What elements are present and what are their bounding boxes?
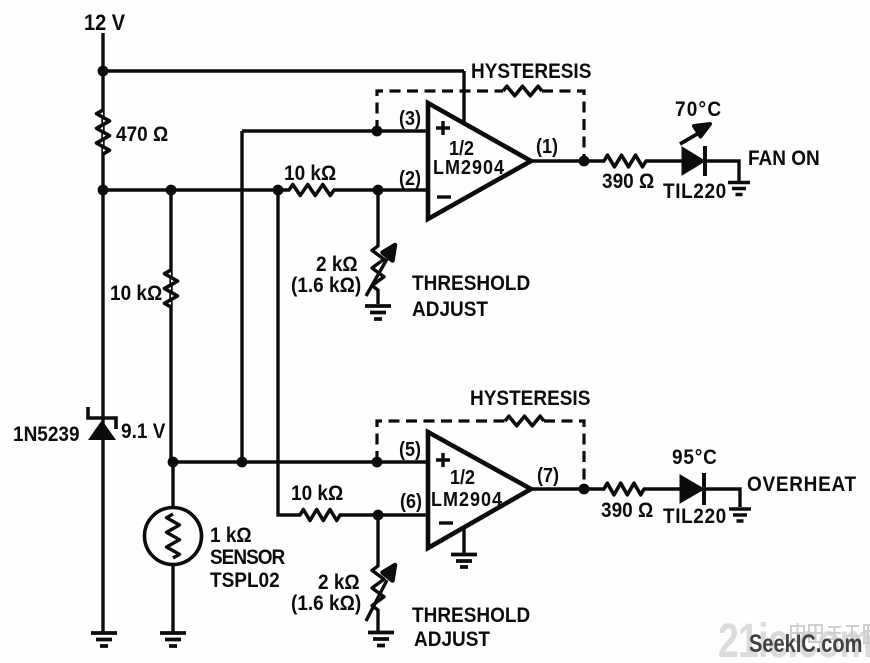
junction dot output2 bbox=[579, 484, 590, 495]
ground left rail bbox=[91, 633, 117, 646]
label 12 V supply bbox=[84, 12, 125, 35]
label FAN ON bbox=[748, 148, 820, 169]
label THRESHOLD 1 bbox=[412, 273, 530, 294]
junction dot bottom10k branch bbox=[273, 185, 284, 196]
wire pot2 from pin6 node bbox=[376, 515, 379, 567]
wire LED1 cathode to ground corner bbox=[705, 161, 739, 181]
potentiometer 2k threshold adjust 1 bbox=[366, 245, 395, 296]
ground pot1 bbox=[365, 306, 391, 319]
wire output pin1 bbox=[531, 159, 605, 162]
label pin 2 bbox=[399, 168, 421, 188]
wire sensor bottom to ground bbox=[171, 462, 174, 633]
potentiometer 2k threshold adjust 2 bbox=[366, 565, 395, 621]
op-amp U1 1/2 LM2904 triangle bbox=[428, 103, 531, 219]
wire divider branch vertical 10k bbox=[169, 190, 172, 462]
wire pot1 from pin2 node bbox=[376, 190, 379, 247]
junction dot pin5 rail left bbox=[168, 457, 179, 468]
label OVERHEAT bbox=[747, 474, 857, 495]
label 70 C bbox=[675, 99, 722, 120]
junction dot pot1 top bbox=[373, 185, 384, 196]
label TIL220 top bbox=[663, 181, 727, 202]
wire non-inverting input pin3 bbox=[242, 129, 428, 132]
label THRESHOLD 2 bbox=[412, 605, 530, 626]
resistor hysteresis 1 bbox=[503, 86, 542, 96]
wire branch to bottom 10k vertical bbox=[278, 190, 301, 515]
resistor hysteresis 2 bbox=[505, 416, 544, 426]
label 2 kohm pot2 bbox=[318, 572, 360, 593]
label 10 kohm divider bbox=[110, 283, 162, 304]
junction dot pin5 hysteresis bbox=[372, 457, 383, 468]
label 2 kohm pot1 bbox=[316, 254, 358, 275]
op-amp U2 minus sign bbox=[439, 521, 453, 524]
label sensor 1 kohm bbox=[210, 525, 252, 546]
wire mid rail right of resistor bbox=[333, 188, 428, 191]
wire op-amp U2 ground stub bbox=[462, 528, 465, 553]
label zener 9.1 V bbox=[121, 421, 165, 442]
wire long connector from pin3 node down to pin5 rail bbox=[240, 131, 243, 462]
label resistor 470 ohm value bbox=[116, 124, 168, 145]
dashed hysteresis box 2 bbox=[377, 421, 584, 489]
wire to LED2 anode bbox=[643, 487, 681, 490]
wire output pin7 bbox=[531, 487, 605, 490]
ground sensor bbox=[160, 633, 186, 646]
dashed hysteresis box 1 bbox=[377, 91, 584, 161]
wire to LED1 anode bbox=[645, 159, 683, 162]
resistor 390 ohm top bbox=[604, 155, 646, 167]
label 1.6 kohm pot1 bbox=[291, 275, 361, 296]
label 95 C bbox=[672, 447, 718, 468]
label 10 kohm bottom bbox=[291, 483, 343, 504]
op-amp U1 minus sign bbox=[437, 195, 451, 198]
junction dot mid rail left bbox=[98, 185, 109, 196]
resistor 10k bottom horizontal bbox=[300, 510, 340, 521]
junction dot pin6 pot2 bbox=[373, 510, 384, 521]
label ADJUST 1 bbox=[412, 299, 488, 320]
watermark chinese characters gray bbox=[790, 622, 870, 648]
LED D1 cathode bar bbox=[703, 146, 707, 176]
label op-amp U1 1/2 bbox=[449, 138, 474, 158]
op-amp U2 1/2 LM2904 triangle bbox=[428, 432, 531, 548]
resistor 390 ohm bottom bbox=[604, 483, 644, 495]
zener diode 1N5239 bbox=[88, 407, 116, 440]
ground op-amp U2 bbox=[451, 555, 477, 568]
wire pin6 segment bbox=[339, 513, 428, 516]
ground pot2 bbox=[368, 633, 394, 646]
wire pot1 to ground bbox=[376, 289, 379, 304]
LED D1 light arrow bbox=[680, 124, 710, 144]
sensor TSPL02 circle bbox=[145, 508, 202, 565]
label op-amp U1 LM2904 bbox=[433, 157, 505, 177]
label pin 7 bbox=[537, 465, 559, 485]
watermark 21ic.com light gray bbox=[718, 618, 870, 663]
junction dot output1 bbox=[579, 156, 590, 167]
label pin 1 bbox=[536, 136, 558, 156]
label HYSTERESIS 2 bbox=[470, 388, 590, 409]
label pin 3 bbox=[399, 108, 421, 128]
LED D1 TIL220 triangle bbox=[682, 147, 705, 175]
label op-amp U2 LM2904 bbox=[431, 489, 503, 509]
label 1.6 kohm pot2 bbox=[291, 593, 361, 614]
wire pin5 rail horizontal bbox=[171, 460, 428, 463]
ground LED2 bbox=[729, 509, 751, 521]
label pin 5 bbox=[399, 439, 421, 459]
resistor 10k divider vertical bbox=[165, 270, 178, 307]
label TIL220 bottom bbox=[663, 506, 727, 527]
label HYSTERESIS 1 bbox=[471, 61, 591, 82]
wire pot2 to ground bbox=[376, 609, 379, 631]
LED D2 TIL220 triangle bbox=[680, 475, 704, 503]
wire LED2 cathode to ground corner bbox=[704, 489, 740, 507]
junction dot divider top bbox=[166, 185, 177, 196]
wire top 12V rail horizontal bbox=[103, 69, 464, 72]
wire 12V supply vertical left rail bbox=[101, 33, 104, 633]
label TSPL02 bbox=[210, 570, 280, 591]
label 390 ohm bottom bbox=[601, 500, 653, 521]
wire mid rail to inverting input bbox=[103, 188, 290, 191]
label 390 ohm top bbox=[602, 171, 654, 192]
op-amp U1 plus sign bbox=[436, 121, 450, 135]
junction dot pin3 hysteresis bbox=[372, 126, 383, 137]
op-amp U2 plus sign bbox=[436, 453, 450, 467]
label SENSOR bbox=[210, 547, 284, 568]
label zener 1N5239 bbox=[13, 424, 80, 445]
resistor 10k top horizontal bbox=[289, 185, 334, 196]
junction dot connector bottom bbox=[237, 457, 248, 468]
resistor R 470 ohm vertical bbox=[97, 110, 110, 154]
LED D2 cathode bar bbox=[702, 473, 706, 505]
resistor sensor zigzag bbox=[167, 514, 180, 558]
label 10 kohm top bbox=[284, 163, 336, 184]
watermark SeekIC.com dark bbox=[749, 632, 862, 657]
label pin 6 bbox=[400, 491, 422, 511]
label op-amp U2 1/2 bbox=[450, 467, 475, 487]
ground LED1 bbox=[728, 183, 750, 195]
label ADJUST 2 bbox=[414, 629, 490, 650]
junction dot 12V rail bbox=[98, 66, 109, 77]
wire op-amp U1 supply stub bbox=[462, 71, 465, 127]
